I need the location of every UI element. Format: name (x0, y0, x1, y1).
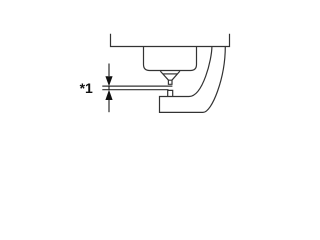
svg-text:*1: *1 (80, 80, 93, 96)
